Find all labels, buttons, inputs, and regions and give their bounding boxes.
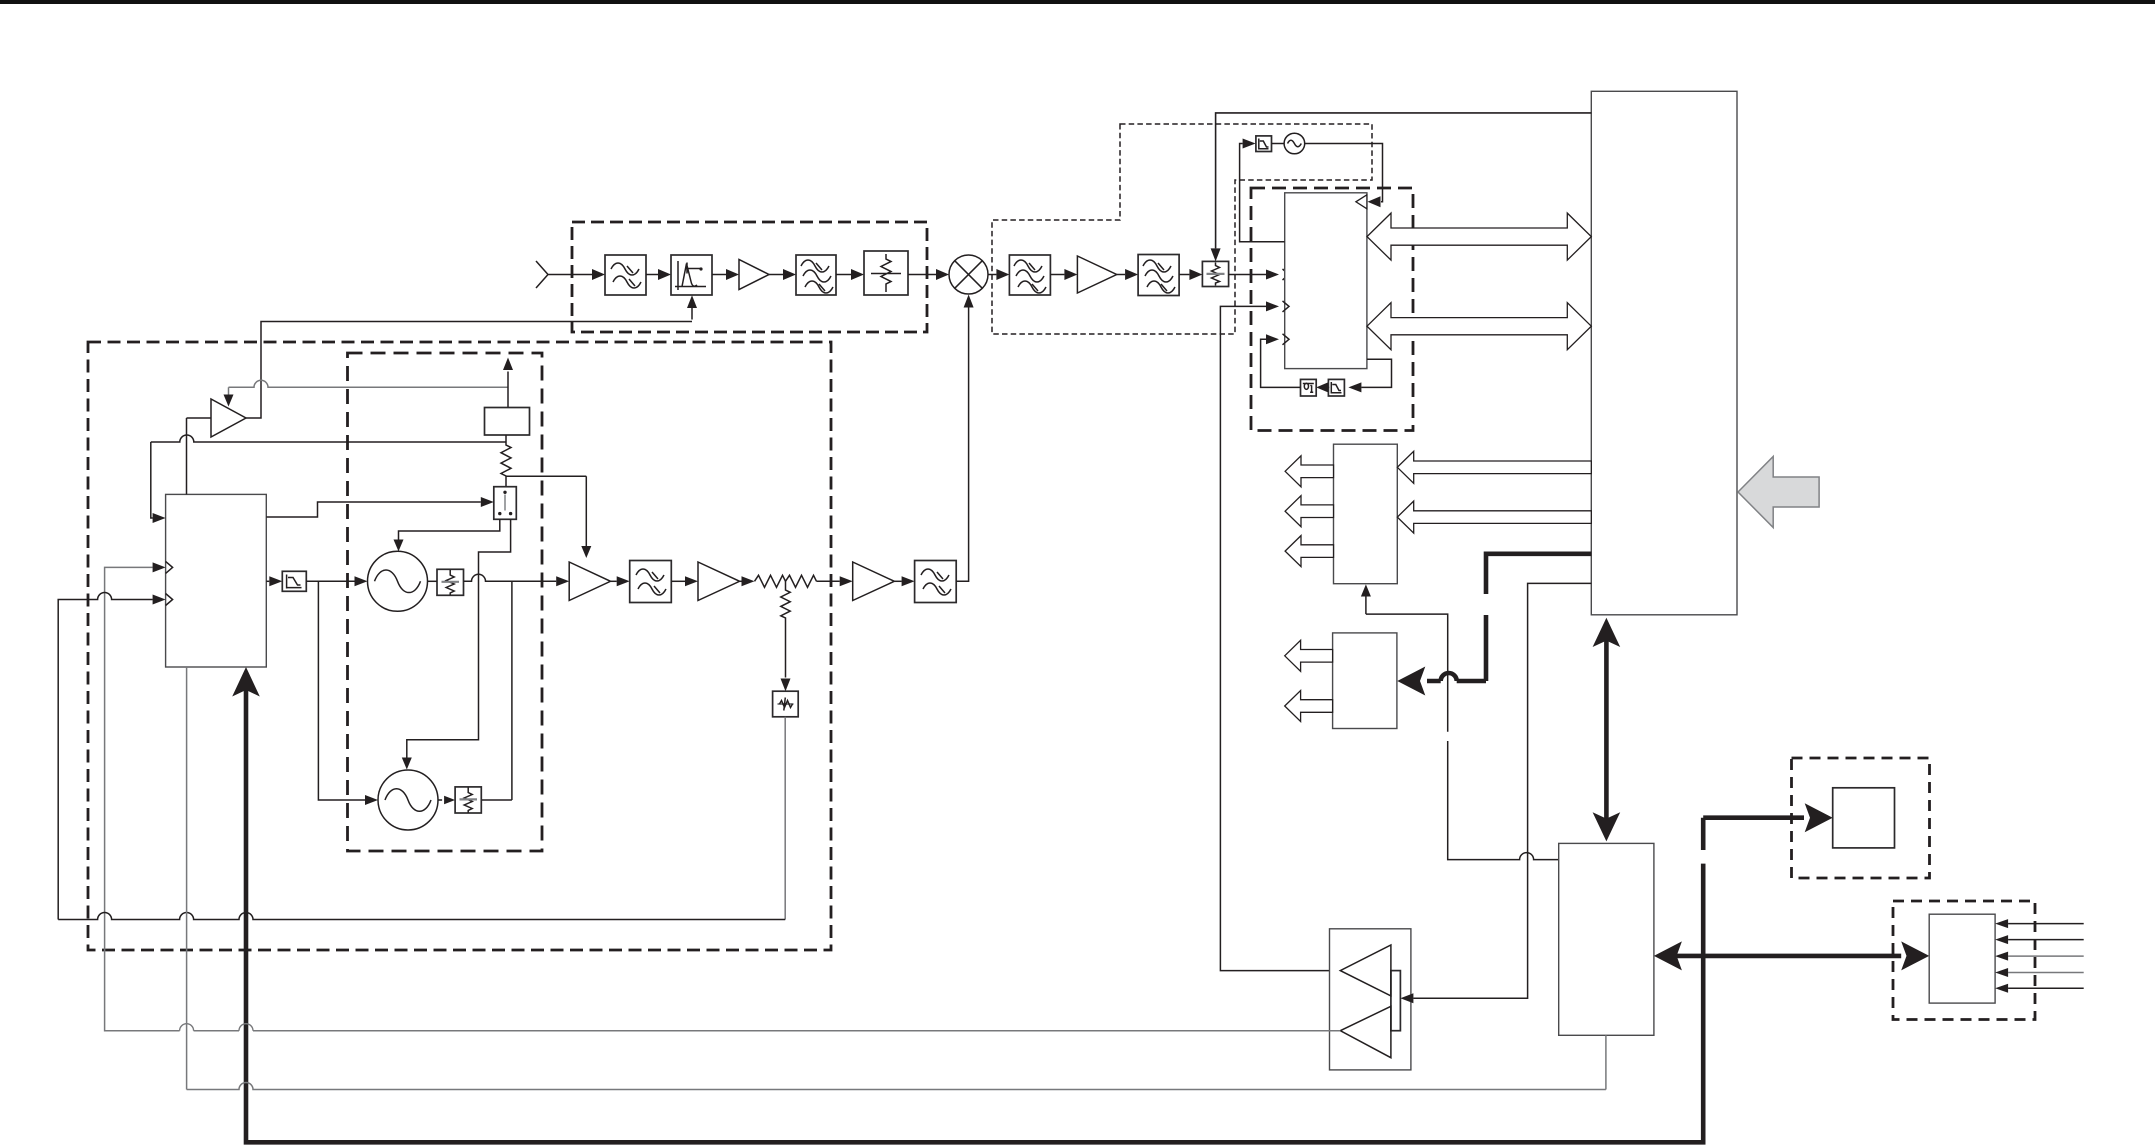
wire: baseband I input to ADC [1220, 306, 1340, 970]
FPGA U4 [1591, 91, 1737, 615]
VCO1 G2 [368, 551, 428, 611]
wire: VCO2 output join [481, 581, 512, 800]
LO buffer amplifier A4 [569, 562, 610, 601]
LO filter FL8 [630, 561, 672, 603]
control bus arrow: FPGA to clock block (upper) [1397, 451, 1591, 483]
wire: reference clock into clock block [1365, 595, 1367, 614]
wire [908, 274, 936, 276]
resistor R5 [781, 581, 790, 677]
wire: oscillator to ADC encode input [1305, 144, 1383, 202]
wire: LO to mixer [956, 307, 968, 581]
detector attenuator AT3 [773, 691, 799, 717]
wire: attenuator to ADC [1229, 274, 1268, 276]
wire [1272, 143, 1285, 145]
output network R2 [437, 569, 464, 595]
dashed box: interface connector section (bottom right) [1893, 901, 2035, 1020]
wire: switch to VCO1 tune [399, 519, 500, 542]
bandpass filter FL4 [1138, 255, 1179, 296]
wire: FPGA gain control to attenuator [1216, 113, 1592, 249]
wire: VCO2 to network [438, 799, 442, 801]
wire: LO line with crossover to buffer [464, 574, 557, 581]
resistor R1 [501, 435, 511, 487]
wire: synthesizer to switch control [266, 502, 481, 517]
LO amplifier A5 [698, 562, 740, 601]
microcontroller-interface bus (thick double arrow) [1667, 954, 1901, 959]
output arrow 5 [1285, 691, 1333, 722]
wire [1327, 386, 1330, 388]
bandpass filter FL1 [605, 255, 646, 295]
wire [1117, 274, 1125, 276]
dashed box: VCO section (inner) [348, 353, 543, 851]
ADC U2 [1285, 193, 1367, 369]
bandpass filter FL3 [1009, 255, 1050, 295]
wire: tune line with arrow to VCO box edge [507, 372, 509, 408]
VCO2 G3 [378, 770, 438, 830]
wire: charge-pump feedback loop [151, 435, 506, 518]
wire: ADC reference out to clock filter [1240, 144, 1285, 242]
output network R3 [455, 787, 481, 813]
connector input line 1 [2008, 923, 2084, 925]
sample-hold block U11 [485, 408, 530, 436]
page header bar [0, 0, 2155, 4]
wire: lock detect (synthesizer bottom to microcontroller) [187, 667, 1606, 1090]
thick control line: FPGA to distribution block [1427, 552, 1591, 682]
wire: resistor node to LO buffer arrow [506, 476, 586, 548]
feedback amplifier A3 [211, 399, 246, 437]
thick bus: serial control loop [244, 677, 1804, 1142]
LO filter FL9 [915, 561, 957, 603]
wire: mixer to IF filter [988, 274, 996, 276]
antenna input [536, 261, 572, 288]
LO amplifier A6 [853, 562, 895, 601]
feedback low-pass filter FL6 [1328, 379, 1344, 396]
clock output arrow 1 [1285, 456, 1333, 487]
output arrow 4 [1285, 640, 1333, 671]
wire [671, 580, 685, 582]
wire [769, 274, 783, 276]
interface connector J1 [1929, 914, 1995, 1003]
data bus arrow: ADC to FPGA (upper) [1367, 213, 1591, 260]
wire: VCO1 to network [428, 580, 438, 582]
amplifier A2 [1077, 256, 1116, 293]
digital threshold block U3 [1301, 379, 1317, 396]
bandpass filter FL2 [796, 255, 836, 295]
wire: amplifier input from synthesizer [187, 418, 212, 494]
amplifier A1 [739, 260, 769, 290]
wire: antenna to RF filter [572, 274, 592, 276]
dashed box: RF front-end section [572, 222, 927, 332]
connector input line 3 [2008, 955, 2084, 957]
clock oscillator G1 [1284, 133, 1305, 154]
wire [1050, 274, 1064, 276]
wire [836, 274, 851, 276]
wire [740, 580, 742, 582]
dashed box: ADC section (long dash) [1251, 188, 1413, 431]
connector input line 2 [2008, 939, 2084, 941]
dashed box: IF section (fine dash, stepped polygon with clock sub-box) [992, 124, 1372, 334]
mixer M1 [949, 255, 988, 294]
buffer B2 [1340, 1006, 1391, 1057]
wire [611, 580, 617, 582]
clock low-pass filter FL5 [1256, 136, 1272, 152]
wire: FPGA to line driver enable [1413, 583, 1591, 998]
wire: synthesizer to loop filter [266, 580, 269, 582]
wire [646, 274, 658, 276]
attenuator pad AT1 [864, 251, 908, 295]
clock distribution block U5 [1334, 444, 1398, 584]
wire: switch to VCO2 tune [407, 519, 511, 760]
clock output arrow 2 [1285, 496, 1333, 527]
clock output arrow 3 [1285, 536, 1333, 567]
line driver block U8 [1330, 929, 1411, 1070]
control bus arrow: FPGA to clock block (lower) [1397, 501, 1591, 533]
wire: AGC detector line to limiter [691, 304, 693, 320]
dashed box: reference DAC section (bottom right) [1792, 758, 1930, 878]
host port arrow (gray) [1738, 457, 1819, 528]
distribution block U6 [1333, 633, 1397, 729]
wire: branch to VCO2 [318, 581, 365, 800]
reference DAC U9 [1833, 788, 1895, 848]
FPGA-microcontroller bus (vertical double arrow) [1604, 629, 1609, 830]
buffer B1 [1340, 945, 1391, 996]
microcontroller U7 [1559, 843, 1654, 1035]
resistive splitter R4 [755, 575, 817, 587]
wire: loop filter to VCO1 [306, 580, 354, 582]
wire [894, 580, 901, 582]
wire [712, 274, 726, 276]
switch S1 [494, 487, 517, 520]
wire: threshold block to ADC gain input [1261, 339, 1301, 387]
wire [817, 580, 840, 582]
dashed box: LO synthesizer section (outer) [88, 342, 831, 950]
connector input line 4 [2008, 972, 2084, 974]
wire [1179, 274, 1189, 276]
variable attenuator AT2 [1202, 261, 1228, 286]
loop filter FL7 [282, 571, 306, 591]
PLL synthesizer U10 [166, 494, 267, 667]
wire: modulation input (synthesizer lower pin) [58, 593, 785, 920]
data bus arrow: ADC to FPGA (lower) [1367, 303, 1591, 350]
wire: TX data loop (buffer B2 to synthesizer) [105, 567, 1341, 1030]
ADC encode pin (hollow arrow) [1356, 195, 1367, 209]
connector input line 5 [2008, 987, 2084, 989]
wire: level control with arrow into amplifier [229, 380, 509, 387]
limiter U1 [671, 255, 712, 295]
wire: amplifier output to limiter control [246, 322, 692, 419]
wire: ADC data feedback to DAC filter [1361, 359, 1391, 387]
wire: detector to ground bus [784, 717, 786, 920]
